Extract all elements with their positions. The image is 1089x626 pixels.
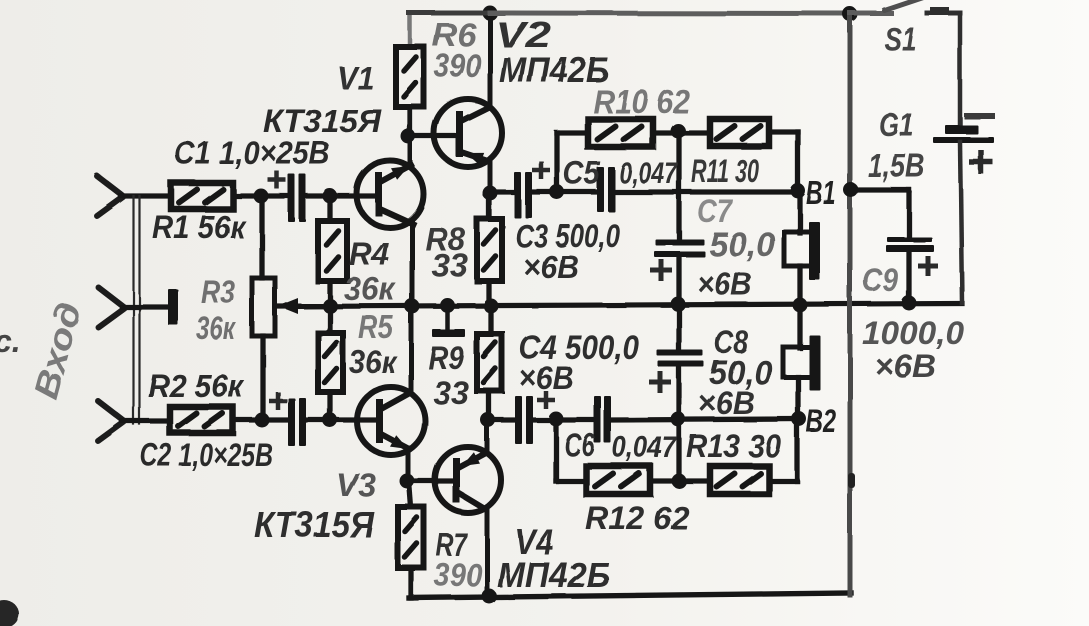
- resistor R11 30: [710, 119, 769, 146]
- resistor R13 30: [710, 466, 769, 494]
- wire input3 to R2: [122, 418, 170, 423]
- junction C8 line crossing: [671, 412, 686, 427]
- plus mark C4: [537, 398, 555, 403]
- svg-text:R10 62: R10 62: [593, 83, 691, 120]
- capacitor C7 50,0 x6V: [655, 239, 704, 245]
- wire tap down to R12: [553, 419, 558, 481]
- V4 collector down to bottom rail: [460, 494, 485, 509]
- svg-text:390: 390: [434, 47, 482, 84]
- resistor R12 62: [586, 466, 650, 494]
- wire junction down to C7: [676, 131, 681, 240]
- svg-text:В1: В1: [806, 175, 836, 211]
- wire node A to R3 top: [259, 196, 264, 278]
- plus mark C3: [532, 168, 550, 173]
- junction V3 base / R5 bottom: [323, 413, 338, 428]
- junction R12/R13/C8: [672, 474, 687, 489]
- junction C4/C6/R12 tap: [549, 412, 564, 427]
- wire mid rail to speaker B2: [797, 305, 802, 348]
- svg-text:С2 1,0×25В: С2 1,0×25В: [140, 437, 273, 473]
- resistor R4 36k: [318, 221, 347, 281]
- wire node to C4: [488, 417, 514, 422]
- svg-text:36к: 36к: [349, 344, 398, 380]
- wire V3 emitter down: [406, 448, 411, 481]
- svg-text:R12 62: R12 62: [585, 500, 689, 536]
- svg-text:R9: R9: [428, 340, 464, 376]
- wire battery plus to mid rail: [960, 142, 962, 303]
- wire node to V4 base: [407, 478, 453, 483]
- plus mark C2: [269, 399, 287, 404]
- ink blob bottom left corner: [0, 600, 19, 626]
- resistor R8 33: [477, 219, 502, 281]
- node B1: [791, 184, 806, 199]
- wire R4 bottom stub: [327, 281, 332, 305]
- resistor R10 62: [588, 119, 653, 147]
- resistor R9 33: [477, 334, 502, 391]
- svg-text:с.: с.: [0, 323, 21, 359]
- svg-text:V2: V2: [495, 14, 551, 55]
- wire R11 down to B1 node: [795, 132, 800, 191]
- wire to C9: [851, 187, 909, 192]
- input pin 1 arrow: [97, 176, 123, 196]
- junction V2 collector on top rail: [483, 6, 498, 21]
- svg-text:36к: 36к: [196, 310, 236, 346]
- svg-text:36к: 36к: [344, 271, 397, 307]
- junction C7 on mid rail: [671, 297, 686, 312]
- junction R8/R9 on mid rail: [484, 299, 499, 314]
- svg-text:×6В: ×6В: [519, 360, 574, 396]
- junction R10/R11/C7: [671, 124, 686, 139]
- svg-text:R5: R5: [358, 309, 394, 345]
- wire R5 top stub: [327, 306, 332, 333]
- resistor R6 390: [396, 47, 424, 107]
- transistor V2 MP42B: [434, 99, 502, 167]
- svg-text:×6В: ×6В: [874, 348, 936, 384]
- speaker B2: [783, 347, 812, 377]
- ink blotch on wire: [848, 473, 855, 488]
- wire R7 to bottom rail: [408, 568, 413, 598]
- capacitor C2 1,0x25V: [288, 398, 295, 446]
- svg-text:КТ315Я: КТ315Я: [263, 103, 382, 139]
- svg-text:×6В: ×6В: [523, 249, 579, 285]
- capacitor C5 0,047: [597, 167, 604, 212]
- capacitor C8 50,0 x6V: [657, 350, 703, 356]
- plus mark C1: [268, 178, 286, 183]
- svg-text:G1: G1: [879, 107, 914, 143]
- node V3 emitter / R7 / V4 base: [400, 474, 415, 489]
- wire top rail to switch pivot: [850, 11, 891, 16]
- wire C9 to mid rail: [906, 252, 911, 303]
- svg-text:МП42Б: МП42Б: [497, 556, 610, 595]
- input pin 2 arrow: [98, 287, 124, 307]
- capacitor C9 1000,0 x6V: [887, 237, 932, 242]
- wire C4 to C6: [531, 417, 596, 422]
- wire bottom rail: [409, 593, 851, 598]
- wire C5 to B1 node: [615, 189, 798, 194]
- wire V2 emitter node to C3: [490, 189, 514, 194]
- wire tap up to R10: [554, 133, 559, 192]
- wire input2 to common bar: [122, 304, 169, 309]
- svg-text:50,0: 50,0: [709, 226, 775, 264]
- V2 emitter (arrow toward base, PNP): [461, 152, 488, 161]
- junction common-bar tap on mid rail: [440, 298, 455, 313]
- transistor V1 KT315Ya: [357, 161, 424, 228]
- transistor V3 KT315Ya: [357, 387, 425, 455]
- wire down to C9: [906, 190, 911, 238]
- transistor V4 MP42B: [435, 447, 501, 513]
- svg-text:0,047: 0,047: [612, 431, 677, 464]
- resistor R7 390: [398, 507, 424, 568]
- svg-text:1000,0: 1000,0: [862, 315, 964, 351]
- wire top rail: [490, 11, 851, 17]
- wire V1 collector to mid rail: [410, 223, 415, 305]
- wire R13 up to B2 node: [794, 419, 799, 481]
- wire mid rail to R9: [488, 306, 493, 334]
- wire R2 to C2: [233, 417, 291, 422]
- svg-text:R1 56к: R1 56к: [152, 209, 247, 245]
- capacitor C6 0,047: [594, 396, 601, 443]
- wire mid rail down to C8: [676, 305, 681, 351]
- node B2: [792, 412, 807, 427]
- wire switch to battery: [958, 13, 963, 126]
- common terminal bar below mid rail: [445, 305, 450, 329]
- input common terminal bar: [168, 289, 178, 325]
- svg-text:КТ315Я: КТ315Я: [254, 504, 375, 545]
- resistor R1 56k: [171, 183, 233, 209]
- wire C3 to C5: [531, 189, 598, 194]
- wire R5 bottom stub: [327, 392, 332, 420]
- wire C1 to V1 base: [307, 193, 375, 198]
- wire to R10 left: [557, 130, 588, 135]
- svg-text:33: 33: [433, 375, 469, 411]
- svg-text:1,5В: 1,5В: [868, 147, 925, 184]
- wire V2 emitter down to output node: [488, 161, 493, 193]
- plus mark C8: [649, 380, 671, 385]
- wire top rail left: [409, 11, 490, 16]
- switch S1 lever: [884, 0, 926, 10]
- wire C2 to V3 base: [307, 417, 376, 422]
- wire S1 right contact: [927, 11, 960, 16]
- node V1 collector / R6 / V2 base: [401, 129, 416, 144]
- wire C8 down to R12/R13 junction: [676, 367, 681, 481]
- node B junction R2/C2/R3: [255, 413, 270, 428]
- potentiometer R3 36k body: [252, 278, 275, 336]
- svg-text:R11 30: R11 30: [691, 153, 759, 189]
- wire node to V2 base: [408, 133, 456, 138]
- svg-text:×6В: ×6В: [698, 385, 755, 421]
- wire B1 node to speaker: [797, 191, 802, 233]
- speaker B1: [784, 232, 814, 266]
- svg-text:С1 1,0×25В: С1 1,0×25В: [174, 135, 330, 171]
- svg-text:R2 56к: R2 56к: [148, 368, 245, 404]
- wire R11 right: [769, 129, 798, 134]
- V1 collector: [380, 209, 413, 224]
- battery minus sign: [967, 113, 992, 119]
- wire V2 emitter to R8: [486, 194, 491, 219]
- node A junction R1/C1/R3: [254, 189, 269, 204]
- capacitor C3 500,0 x6V: [514, 172, 521, 218]
- svg-text:С6: С6: [564, 427, 595, 463]
- svg-text:0,047: 0,047: [619, 157, 678, 190]
- junction R4/R5 on mid rail: [323, 299, 338, 314]
- wire R10 to R11: [653, 130, 710, 135]
- wire R6 to node: [407, 107, 412, 137]
- V2 collector to top rail: [461, 107, 489, 121]
- V3 emitter with arrow: [381, 434, 409, 449]
- svg-text:С5: С5: [563, 155, 601, 191]
- input pin 3 arrow: [98, 401, 124, 421]
- junction on battery negative line: [844, 183, 859, 198]
- svg-text:С7: С7: [697, 193, 734, 229]
- wire top rail to R6: [408, 13, 413, 47]
- node R9 / V4 emitter / C4: [481, 413, 496, 428]
- svg-text:R3: R3: [201, 274, 235, 310]
- wire node to R7: [409, 481, 411, 507]
- resistor R2 56k: [170, 407, 233, 433]
- V3 collector up to mid rail: [381, 393, 410, 409]
- battery G1 plates: [945, 125, 978, 134]
- V4 emitter (arrow toward base) up to output node: [460, 453, 486, 467]
- junction V1 base / R4 top: [323, 189, 338, 204]
- svg-text:В2: В2: [806, 403, 836, 439]
- wire to R12 left: [556, 478, 586, 483]
- input cable shield double line: [132, 196, 134, 424]
- svg-text:С9: С9: [862, 262, 898, 298]
- wire R13 right: [769, 478, 797, 483]
- wire R4 top stub: [327, 196, 332, 221]
- wire R9 to node V4: [486, 391, 491, 420]
- capacitor C1 1,0x25V: [288, 174, 295, 222]
- wire R12 to R13: [650, 478, 710, 483]
- junction top rail / battery negative line: [843, 7, 858, 22]
- wire battery negative vertical: [848, 13, 853, 595]
- svg-text:33: 33: [431, 247, 468, 283]
- plus mark C7: [650, 268, 672, 273]
- wire R1 to C1: [233, 193, 291, 198]
- wire input1 to R1: [121, 193, 171, 198]
- svg-text:S1: S1: [884, 21, 916, 57]
- junction C3/C5/R10 tap: [550, 185, 565, 200]
- svg-text:V3: V3: [336, 467, 376, 503]
- resistor R5 36k: [318, 333, 343, 392]
- plus mark C9: [918, 264, 938, 269]
- wire C6 to B2 node: [610, 419, 799, 420]
- capacitor C4 500,0 x6V: [515, 396, 522, 444]
- junction C9 on mid rail: [902, 296, 917, 311]
- node V2 emitter / R8 / C3: [483, 186, 498, 201]
- svg-text:390: 390: [434, 557, 482, 593]
- junction speakers common on mid rail: [793, 298, 808, 313]
- wire C7 to mid rail: [676, 257, 681, 304]
- battery plus sign: [969, 159, 993, 165]
- junction V4 collector on bottom rail: [482, 589, 497, 604]
- S1 contact tick: [933, 7, 946, 13]
- svg-text:R13 30: R13 30: [686, 428, 781, 464]
- R3 wiper arrow: [296, 304, 332, 309]
- svg-text:×6В: ×6В: [697, 266, 752, 302]
- wire R3 bottom to node B: [260, 336, 265, 420]
- wire mid (common) rail: [280, 304, 962, 307]
- junction V1 emitter on mid rail: [405, 299, 420, 314]
- wire speaker B1 to mid rail: [797, 266, 802, 305]
- wire speaker B2 to B2 node: [795, 377, 800, 419]
- wire R8 to mid rail: [486, 281, 491, 306]
- svg-text:V1: V1: [337, 60, 374, 96]
- svg-text:R4: R4: [349, 236, 389, 272]
- V1 emitter with arrow (to R6 node): [380, 165, 411, 182]
